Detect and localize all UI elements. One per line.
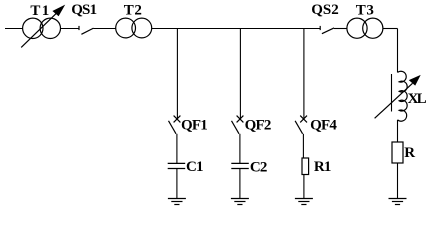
svg-text:QF1: QF1 — [181, 118, 207, 134]
svg-text:C1: C1 — [186, 159, 203, 175]
svg-text:R: R — [404, 145, 415, 161]
svg-text:T2: T2 — [124, 2, 143, 18]
svg-text:T1: T1 — [30, 3, 50, 19]
svg-text:C2: C2 — [250, 159, 267, 175]
svg-text:QF4: QF4 — [310, 118, 337, 134]
svg-text:T3: T3 — [356, 3, 375, 19]
svg-text:R1: R1 — [314, 159, 331, 175]
svg-text:XL: XL — [408, 91, 427, 107]
svg-text:QF2: QF2 — [245, 118, 271, 134]
svg-text:QS2: QS2 — [311, 2, 339, 18]
svg-text:QS1: QS1 — [71, 2, 96, 18]
